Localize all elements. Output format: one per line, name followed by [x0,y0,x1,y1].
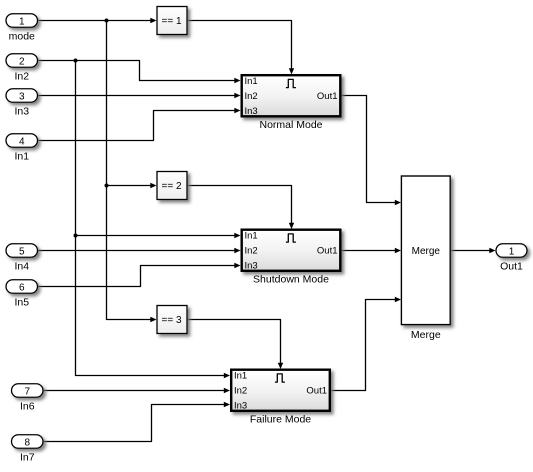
svg-text:== 1: == 1 [161,16,181,27]
subsystem Shutdown Mode [242,230,341,272]
junction mode branch to ==2 [105,184,109,188]
arrowhead Normal In1 [234,78,240,83]
svg-text:5: 5 [19,246,25,257]
svg-text:Normal Mode: Normal Mode [259,119,322,131]
arrowhead Failure In2 [224,388,230,393]
label In3 [14,106,29,118]
arrowhead Shutdown In3 [234,263,240,268]
wire Merge out to Out1 oval [451,250,490,252]
arrowhead into ==3 [150,317,156,322]
inport 7 In6 [12,384,44,398]
wire In6 oval to Failure In2 [43,390,225,392]
svg-text:Failure Mode: Failure Mode [250,414,311,426]
label In6 [20,401,35,413]
svg-text:In6: In6 [20,401,35,413]
svg-text:Merge: Merge [412,246,441,257]
block ==3 [157,306,187,334]
svg-text:In3: In3 [14,106,29,118]
svg-text:In4: In4 [14,261,29,273]
junction In2 trunk [74,59,78,63]
arrowhead Normal In2 [234,93,240,98]
svg-text:Shutdown Mode: Shutdown Mode [253,274,329,286]
svg-text:In1: In1 [14,151,29,163]
svg-text:== 3: == 3 [161,315,181,326]
arrowhead Merge input2 [395,248,401,253]
outport 1 Out1 [496,244,527,258]
arrowhead into Out1 oval [489,248,495,253]
wire In1 oval to Normal In3 [38,111,236,141]
svg-text:In2: In2 [245,91,258,102]
svg-text:Out1: Out1 [500,261,523,273]
svg-text:6: 6 [19,282,25,293]
arrowhead into ==1 [150,18,156,23]
arrowhead into ==2 [150,183,156,188]
label In5 [14,297,29,309]
arrowhead Merge input3 [395,297,401,302]
svg-text:mode: mode [9,31,35,43]
wire ==1 out to Normal trigger [188,21,292,70]
svg-text:In3: In3 [234,401,247,412]
wire Shutdown Out1 to Merge input2 [342,250,397,252]
label mode [9,31,35,43]
label In4 [14,261,29,273]
svg-text:In2: In2 [245,246,258,257]
inport 6 In5 [6,280,38,294]
wire In2 oval to Normal In1 [38,61,236,81]
inport 1 mode [6,14,38,28]
wire mode oval to ==1 [38,20,152,22]
arrowhead Shutdown In2 [234,248,240,253]
wire ==3 out to Failure trigger [188,320,281,364]
inport 4 In1 [6,134,38,148]
inport 3 In3 [6,89,38,103]
label Normal Mode [259,119,322,131]
wire In2 vertical trunk to Failure In1 [76,61,226,376]
wire Normal Out1 to Merge input1 [342,96,397,203]
svg-text:In1: In1 [245,231,258,242]
trigger port glyph Failure Mode [275,374,285,382]
svg-text:Out1: Out1 [306,386,327,397]
svg-text:8: 8 [24,437,30,448]
svg-text:In1: In1 [234,371,247,382]
arrowhead Failure In1 [224,373,230,378]
subsystem Normal Mode [242,75,341,117]
svg-text:1: 1 [19,16,25,27]
block Merge [401,176,450,325]
junction mode trunk [105,19,109,23]
arrowhead Merge input1 [395,200,401,205]
svg-text:4: 4 [19,136,25,147]
svg-text:1: 1 [509,246,515,257]
svg-text:In3: In3 [245,106,258,117]
svg-text:In7: In7 [20,452,35,464]
svg-text:In2: In2 [14,71,29,83]
svg-text:In1: In1 [245,76,258,87]
block ==1 [157,7,187,35]
wire ==2 out to Shutdown trigger [188,186,292,224]
arrowhead Failure trigger [278,363,283,369]
trigger port glyph Shutdown Mode [286,234,296,242]
label Merge [411,329,441,341]
svg-text:3: 3 [19,91,25,102]
wire mode branch to ==2 [107,185,152,187]
block ==2 [157,172,187,200]
label Out1 [500,261,523,273]
arrowhead Normal trigger [289,68,294,74]
arrowhead Shutdown trigger [289,223,294,229]
wire In7 oval to Failure In3 [43,405,225,442]
svg-text:In3: In3 [245,261,258,272]
label Shutdown Mode [253,274,329,286]
subsystem Failure Mode [231,370,330,412]
wire In5 oval to Shutdown In3 [38,266,236,287]
svg-text:7: 7 [24,386,30,397]
inport 5 In4 [6,244,38,258]
inport 8 In7 [12,435,44,449]
svg-text:2: 2 [19,56,25,67]
junction In2 branch to Shutdown In1 [74,234,78,238]
wire In4 oval to Shutdown In2 [38,250,236,252]
label Failure Mode [250,414,311,426]
wire In2 branch to Shutdown In1 [76,235,236,237]
wire In3 oval to Normal In2 [38,95,236,97]
label In1 [14,151,29,163]
arrowhead Normal In3 [234,108,240,113]
wire Failure Out1 to Merge input3 [331,300,396,391]
svg-text:Out1: Out1 [317,246,338,257]
wire mode vertical trunk to ==3 [107,21,152,320]
arrowhead Shutdown In1 [234,233,240,238]
trigger port glyph Normal Mode [286,79,296,87]
svg-text:Out1: Out1 [317,91,338,102]
svg-text:Merge: Merge [411,329,441,341]
inport 2 In2 [6,54,38,68]
svg-text:== 2: == 2 [161,181,181,192]
label In2 [14,71,29,83]
svg-text:In5: In5 [14,297,29,309]
svg-text:In2: In2 [234,386,247,397]
label In7 [20,452,35,464]
arrowhead Failure In3 [224,402,230,407]
